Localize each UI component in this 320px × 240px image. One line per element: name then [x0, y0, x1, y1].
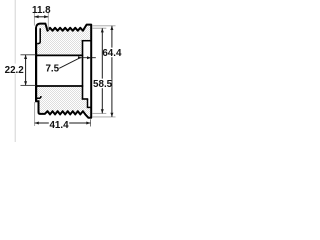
bottom-left step	[36, 100, 38, 112]
dim 22.2: ticks	[21, 54, 36, 56]
pocket bottom	[87, 106, 91, 108]
dim 7.5: leader	[59, 58, 80, 69]
dim 7.5: right arrow pointing left at RE	[92, 57, 96, 59]
hub bottom face (bottom rim topside)	[35, 85, 83, 87]
bottom profile (plateau, teeth, right flange)	[39, 111, 92, 118]
dim 64.4: extension ticks top/bottom	[92, 25, 115, 27]
pulley outline: top profile (left shoulder, poly-V teeth, right flange)	[36, 24, 91, 31]
label 22.2	[4, 64, 24, 74]
left flange inner line V2 with curl	[37, 28, 40, 43]
rim underside (hub top face)	[35, 54, 83, 56]
svg-text:7.5: 7.5	[45, 63, 59, 74]
label 64.4	[103, 48, 122, 58]
svg-text:41.4: 41.4	[49, 120, 69, 131]
hatch bottom rim section	[35, 86, 92, 118]
label 58.5	[93, 79, 112, 89]
svg-text:22.2: 22.2	[5, 65, 25, 76]
cavity left wall W1	[82, 40, 84, 99]
svg-text:58.5: 58.5	[93, 79, 113, 90]
dim 58.5: vertical line with arrows	[101, 28, 103, 113]
cavity arch top	[82, 40, 92, 42]
left outer face V1	[35, 28, 37, 102]
dim 11.8: line with arrows	[34, 16, 48, 18]
svg-text:11.8: 11.8	[32, 5, 51, 16]
dim 58.5: extension ticks top/bottom	[92, 27, 106, 29]
cavity bottom	[82, 98, 89, 100]
white gap between flange faces	[37, 27, 39, 43]
hatch top rim section	[35, 24, 92, 56]
page border vertical gray line	[14, 0, 16, 142]
dim 41.4: line with arrows	[35, 122, 91, 124]
dim 11.8: extension lines	[33, 12, 35, 26]
dim 64.4: vertical line with arrows	[111, 26, 113, 117]
label 41.4	[49, 120, 69, 130]
pocket left wall	[87, 99, 89, 107]
dim 22.2: vertical line with arrows	[25, 55, 27, 86]
svg-text:64.4: 64.4	[102, 48, 122, 59]
bottom-left jut J2	[37, 96, 41, 98]
right outer edge RE	[90, 25, 92, 118]
dim 7.5: left arrow pointing right at W1	[78, 57, 91, 59]
dim 41.4: extension lines	[34, 102, 36, 126]
